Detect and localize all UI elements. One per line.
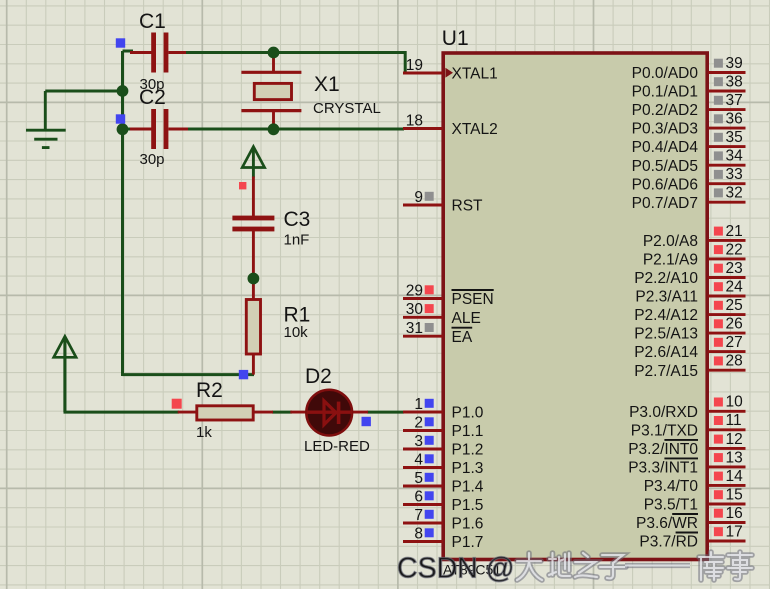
svg-text:XTAL2: XTAL2 <box>452 121 498 138</box>
pin 26 P2.5/A13 (right) <box>634 316 745 343</box>
svg-text:P0.1/AD1: P0.1/AD1 <box>632 84 698 101</box>
value AT89C51 <box>443 562 501 578</box>
svg-text:P2.6/A14: P2.6/A14 <box>634 344 698 361</box>
pin 13 P3.3/INT1 (right) <box>628 449 745 476</box>
svg-text:P2.4/A12: P2.4/A12 <box>634 307 698 324</box>
svg-text:35: 35 <box>726 129 743 146</box>
capacitor C2 <box>130 109 188 149</box>
node junction dot ground tee <box>117 85 129 97</box>
pin 29 PSEN (left) <box>403 282 494 308</box>
svg-text:P3.5/T1: P3.5/T1 <box>644 497 698 514</box>
svg-text:CRYSTAL: CRYSTAL <box>313 100 381 117</box>
pin 3 P1.2 (left) <box>403 433 483 459</box>
svg-text:C3: C3 <box>284 208 311 231</box>
svg-text:19: 19 <box>406 57 423 74</box>
svg-text:P1.2: P1.2 <box>452 442 484 459</box>
svg-text:2: 2 <box>414 414 423 431</box>
pin 23 P2.2/A10 (right) <box>634 260 745 287</box>
pin 5 P1.4 (left) <box>403 470 484 496</box>
svg-text:C2: C2 <box>139 86 166 109</box>
value 10k <box>284 324 309 341</box>
svg-text:16: 16 <box>726 505 743 522</box>
resistor R2 <box>178 406 273 420</box>
svg-text:P3.3/INT1: P3.3/INT1 <box>628 460 698 477</box>
svg-text:28: 28 <box>726 353 743 370</box>
svg-text:21: 21 <box>726 223 743 240</box>
wire: C1 left to vertical bus corner <box>123 50 134 53</box>
svg-text:15: 15 <box>726 486 743 503</box>
svg-text:X1: X1 <box>314 73 340 96</box>
svg-text:R2: R2 <box>196 379 223 402</box>
svg-text:P3.7/RD: P3.7/RD <box>639 534 698 551</box>
wire: bottom horizontal to R1 bottom <box>123 373 255 376</box>
pin 36 P0.3/AD3 (right) <box>632 111 746 138</box>
svg-text:1k: 1k <box>196 424 212 441</box>
wire: vertical bus left <box>121 51 124 376</box>
label C3 <box>284 208 311 231</box>
power terminal arrow (left, VCC to R2/LED rail) <box>54 336 76 412</box>
wire: XTAL2 rail C2 to chip <box>188 128 404 131</box>
svg-text:30: 30 <box>406 301 424 318</box>
pin 18 XTAL2 (left) <box>403 112 498 138</box>
pin 12 P3.2/INT0 (right) <box>628 431 745 458</box>
wire: C2 left stub connection <box>123 128 134 131</box>
pin 28 P2.7/A15 (right) <box>634 353 745 380</box>
wire: LED to P1.0 segment <box>367 411 404 414</box>
watermark glyph di <box>549 553 570 576</box>
pin 32 P0.7/AD7 (right) <box>632 185 746 212</box>
pin 2 P1.1 (left) <box>403 414 483 440</box>
pin 39 P0.0/AD0 (right) <box>632 55 746 82</box>
svg-text:RST: RST <box>452 198 484 215</box>
pin 25 P2.4/A12 (right) <box>634 297 745 324</box>
value LED-RED <box>304 438 370 455</box>
pin 21 P2.0/A8 (right) <box>643 223 746 250</box>
wire: top rail C1 to XTAL1 corner <box>186 53 405 75</box>
svg-text:18: 18 <box>406 112 423 129</box>
svg-text:P3.0/RXD: P3.0/RXD <box>629 404 698 421</box>
svg-text:25: 25 <box>726 297 743 314</box>
value 30p (C2) <box>140 151 165 168</box>
node junction dot C2 tee <box>117 123 129 135</box>
pin 10 P3.0/RXD (right) <box>629 394 745 421</box>
svg-text:10: 10 <box>726 394 744 411</box>
svg-text:C1: C1 <box>139 10 166 33</box>
pin 16 P3.6/WR (right) <box>636 505 746 532</box>
svg-text:U1: U1 <box>442 27 469 50</box>
marker C3 net <box>239 182 246 189</box>
pin 27 P2.6/A14 (right) <box>634 334 745 361</box>
pin 19 XTAL1 (left) <box>403 57 498 83</box>
svg-text:31: 31 <box>406 320 423 337</box>
svg-text:7: 7 <box>414 507 423 524</box>
svg-text:P1.6: P1.6 <box>452 516 484 533</box>
watermark dash <box>625 563 690 568</box>
label C1 <box>139 10 166 33</box>
svg-text:39: 39 <box>726 55 743 72</box>
svg-text:6: 6 <box>414 488 423 505</box>
label D2 <box>305 365 332 388</box>
svg-text:13: 13 <box>726 449 743 466</box>
svg-text:P1.1: P1.1 <box>452 423 484 440</box>
svg-text:P3.4/T0: P3.4/T0 <box>644 478 699 495</box>
wire: R2 to LED segment <box>272 411 292 414</box>
ground <box>26 91 66 148</box>
watermark glyph zi <box>600 555 626 578</box>
svg-text:P1.3: P1.3 <box>452 460 484 477</box>
svg-text:9: 9 <box>414 189 423 206</box>
svg-text:P0.6/AD6: P0.6/AD6 <box>632 176 698 193</box>
label U1 <box>442 27 469 50</box>
svg-text:12: 12 <box>726 431 743 448</box>
pin 6 P1.5 (left) <box>403 488 483 514</box>
svg-text:LED-RED: LED-RED <box>304 438 370 455</box>
value 30p (C1) <box>140 76 165 93</box>
pin 14 P3.4/T0 (right) <box>644 468 746 495</box>
svg-text:14: 14 <box>726 468 744 485</box>
label R2 <box>196 379 223 402</box>
pin 24 P2.3/A11 (right) <box>635 278 745 305</box>
watermark glyph mo <box>699 552 723 580</box>
svg-text:24: 24 <box>726 278 744 295</box>
marker R1 net <box>239 370 248 379</box>
op IC U1 AT89C51 body <box>443 53 707 560</box>
svg-text:P2.0/A8: P2.0/A8 <box>643 233 698 250</box>
svg-text:38: 38 <box>726 73 743 90</box>
pin 15 P3.5/T1 (right) <box>644 486 746 513</box>
svg-text:ALE: ALE <box>452 310 481 327</box>
svg-text:27: 27 <box>726 334 743 351</box>
value 1nF <box>284 232 310 249</box>
pin 30 ALE (left) <box>403 301 481 327</box>
power terminal arrow (above C3) <box>242 147 264 178</box>
svg-text:37: 37 <box>726 92 743 109</box>
svg-text:23: 23 <box>726 260 743 277</box>
svg-text:P2.3/A11: P2.3/A11 <box>635 289 698 306</box>
svg-text:P0.2/AD2: P0.2/AD2 <box>632 102 698 119</box>
pin marker XTAL1 clock arrow <box>445 68 453 78</box>
marker D2 net <box>362 417 371 426</box>
watermark CSDN @大地之子 - 摩哥 (drawn strokes, no CJK font) <box>397 552 752 585</box>
svg-text:29: 29 <box>406 282 423 299</box>
pin 35 P0.4/AD4 (right) <box>632 129 746 156</box>
svg-text:P2.2/A10: P2.2/A10 <box>634 270 698 287</box>
crystal X1 <box>241 53 301 130</box>
svg-text:P1.4: P1.4 <box>452 479 484 496</box>
LED D2 <box>290 390 368 436</box>
watermark glyph ge <box>728 552 752 579</box>
svg-text:4: 4 <box>414 451 423 468</box>
pin 8 P1.7 (left) <box>403 525 483 551</box>
svg-text:17: 17 <box>726 523 743 540</box>
svg-text:P2.5/A13: P2.5/A13 <box>634 326 698 343</box>
label X1 <box>314 73 340 96</box>
svg-text:P2.1/A9: P2.1/A9 <box>643 252 698 269</box>
pin 7 P1.6 (left) <box>403 507 483 533</box>
value 1k <box>196 424 212 441</box>
value CRYSTAL <box>313 100 381 117</box>
svg-text:D2: D2 <box>305 365 332 388</box>
pin 22 P2.1/A9 (right) <box>643 241 746 268</box>
svg-text:P3.2/INT0: P3.2/INT0 <box>628 441 698 458</box>
svg-text:XTAL1: XTAL1 <box>452 66 498 83</box>
svg-text:1nF: 1nF <box>284 232 310 249</box>
svg-text:P0.4/AD4: P0.4/AD4 <box>632 139 699 156</box>
pin 17 P3.7/RD (right) <box>639 523 745 550</box>
svg-text:PSEN: PSEN <box>452 291 494 308</box>
svg-text:P0.5/AD5: P0.5/AD5 <box>632 158 698 175</box>
svg-text:30p: 30p <box>140 151 165 168</box>
watermark glyph da <box>517 553 542 580</box>
svg-text:32: 32 <box>726 185 743 202</box>
svg-text:P2.7/A15: P2.7/A15 <box>634 363 698 380</box>
marker C2 net <box>116 114 125 123</box>
pin 4 P1.3 (left) <box>403 451 483 477</box>
svg-text:CSDN @: CSDN @ <box>397 553 515 585</box>
watermark glyph zhi <box>575 553 597 577</box>
capacitor C3 <box>232 177 274 277</box>
svg-text:8: 8 <box>414 525 423 542</box>
pin 38 P0.1/AD1 (right) <box>632 73 746 100</box>
label R1 <box>284 304 311 327</box>
svg-text:P3.1/TXD: P3.1/TXD <box>631 422 698 439</box>
svg-text:22: 22 <box>726 241 743 258</box>
pin 34 P0.5/AD5 (right) <box>632 148 746 175</box>
wire: ground branch horizontal <box>45 90 122 93</box>
svg-text:10k: 10k <box>284 324 309 341</box>
capacitor C1 <box>130 33 186 73</box>
svg-text:11: 11 <box>726 412 742 429</box>
marker C1 net <box>116 38 125 47</box>
pin 1 P1.0 (left) <box>403 396 484 422</box>
node junction dot X1 bottom <box>268 123 280 135</box>
pin 31 EA (left) <box>403 320 473 346</box>
pin 33 P0.6/AD6 (right) <box>632 166 746 193</box>
svg-text:3: 3 <box>414 433 423 450</box>
resistor R1 <box>246 280 260 375</box>
svg-text:5: 5 <box>414 470 423 487</box>
svg-text:P0.0/AD0: P0.0/AD0 <box>632 65 699 82</box>
svg-text:P1.0: P1.0 <box>452 405 484 422</box>
svg-text:36: 36 <box>726 111 743 128</box>
svg-text:P0.7/AD7: P0.7/AD7 <box>632 195 698 212</box>
node junction dot C3-R1 <box>248 273 260 285</box>
svg-text:1: 1 <box>414 396 423 413</box>
wire: power rail to R2 <box>64 341 180 412</box>
svg-text:33: 33 <box>726 166 743 183</box>
svg-text:34: 34 <box>726 148 744 165</box>
node junction dot X1 top <box>268 47 280 59</box>
svg-text:26: 26 <box>726 316 743 333</box>
svg-text:P0.3/AD3: P0.3/AD3 <box>632 121 698 138</box>
label C2 <box>139 86 166 109</box>
pin 9 RST (left) <box>403 189 483 215</box>
svg-text:EA: EA <box>452 329 473 346</box>
svg-text:P1.7: P1.7 <box>452 534 484 551</box>
pin 11 P3.1/TXD (right) <box>631 412 746 439</box>
svg-text:P1.5: P1.5 <box>452 497 484 514</box>
pin 37 P0.2/AD2 (right) <box>632 92 746 119</box>
svg-text:P3.6/WR: P3.6/WR <box>636 515 698 532</box>
marker R2 net <box>172 399 182 409</box>
